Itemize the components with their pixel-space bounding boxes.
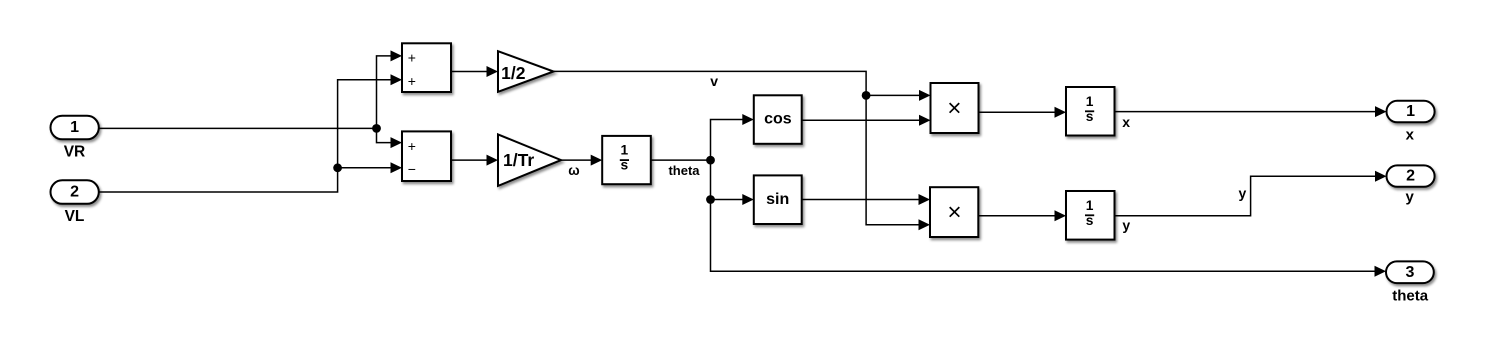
inport In2 VL	[51, 180, 99, 225]
product Product2	[930, 187, 978, 237]
svg-text:y: y	[1239, 185, 1247, 201]
node VL-junction	[333, 163, 342, 172]
wire Sum2 output to Gain2	[451, 155, 498, 166]
wire sin output to Product2 input 1	[802, 194, 930, 205]
svg-text:1: 1	[1086, 198, 1094, 213]
inport In1 VR	[51, 116, 99, 161]
svg-text:−: −	[408, 161, 416, 177]
node theta-junction	[706, 156, 715, 165]
outport Out1 x	[1387, 101, 1435, 144]
wire VR from In1 to junction	[99, 127, 377, 129]
outport Out3 theta	[1386, 261, 1434, 304]
wire v-branch to Product1 input 1	[866, 90, 930, 101]
wire theta to sin input	[711, 194, 754, 205]
integrator Integrator1 1/s	[602, 136, 651, 184]
svg-text:s: s	[1086, 213, 1094, 228]
wire Integrator3 output to Out2	[1115, 171, 1387, 216]
wire theta to cos input	[711, 114, 754, 160]
wire VR-branch to Sum2 input 1	[377, 128, 403, 148]
svg-text:3: 3	[1405, 264, 1414, 281]
svg-text:1/Tr: 1/Tr	[503, 150, 534, 170]
svg-text:VL: VL	[65, 208, 85, 225]
trig block cos	[754, 95, 802, 144]
svg-text:s: s	[1086, 109, 1094, 124]
integrator Integrator3 1/s	[1066, 191, 1115, 240]
svg-text:+: +	[408, 138, 416, 154]
svg-text:sin: sin	[766, 191, 789, 208]
wire VR-branch to Sum1 input 1	[377, 50, 403, 128]
integrator Integrator2 1/s	[1066, 87, 1115, 136]
svg-text:+: +	[408, 73, 416, 89]
svg-text:y: y	[1122, 217, 1130, 233]
gain Gain2 1/Tr	[498, 134, 561, 186]
svg-text:1: 1	[621, 143, 629, 158]
svg-text:1: 1	[70, 119, 79, 136]
node sin-junction	[706, 195, 715, 204]
svg-text:2: 2	[1406, 168, 1415, 185]
wire Gain2 output to Integrator1	[561, 155, 602, 166]
svg-text:2: 2	[70, 184, 79, 201]
svg-text:s: s	[621, 158, 629, 173]
svg-text:v: v	[710, 73, 718, 89]
svg-text:x: x	[1406, 127, 1415, 144]
svg-text:theta: theta	[1392, 288, 1428, 305]
sum block Sum2	[402, 131, 451, 181]
svg-text:x: x	[1122, 114, 1130, 130]
svg-text:+: +	[408, 49, 416, 65]
wire VL-branch to Sum2 input 2	[338, 162, 402, 173]
wire Integrator2 output to Out1	[1115, 106, 1387, 117]
svg-text:1: 1	[1406, 103, 1415, 120]
trig block sin	[754, 175, 802, 224]
wire cos output to Product1 input 2	[802, 115, 931, 126]
wire Product2 output to Integrator3	[978, 210, 1066, 221]
wire Integrator1 output to theta junction	[651, 159, 711, 161]
wire v from Gain1 to Product2 input 2	[554, 71, 931, 230]
product Product1	[931, 83, 979, 133]
node v-junction	[862, 91, 871, 100]
node VR-junction	[372, 124, 381, 133]
svg-text:y: y	[1406, 189, 1415, 206]
svg-text:ω: ω	[568, 163, 579, 178]
svg-text:1/2: 1/2	[501, 63, 526, 83]
gain Gain1 1/2	[498, 51, 554, 92]
outport Out2 y	[1387, 165, 1435, 205]
svg-text:theta: theta	[668, 163, 700, 178]
wire Product1 output to Integrator2	[979, 107, 1067, 118]
wire Sum1 output to Gain1	[451, 66, 498, 77]
sum block Sum1	[402, 43, 451, 92]
wire VL from In2 up to Sum1 input 2	[99, 74, 402, 192]
svg-text:1: 1	[1086, 94, 1094, 109]
svg-text:VR: VR	[64, 144, 86, 161]
wire theta down to Out3	[711, 160, 1387, 277]
svg-text:cos: cos	[764, 111, 792, 128]
